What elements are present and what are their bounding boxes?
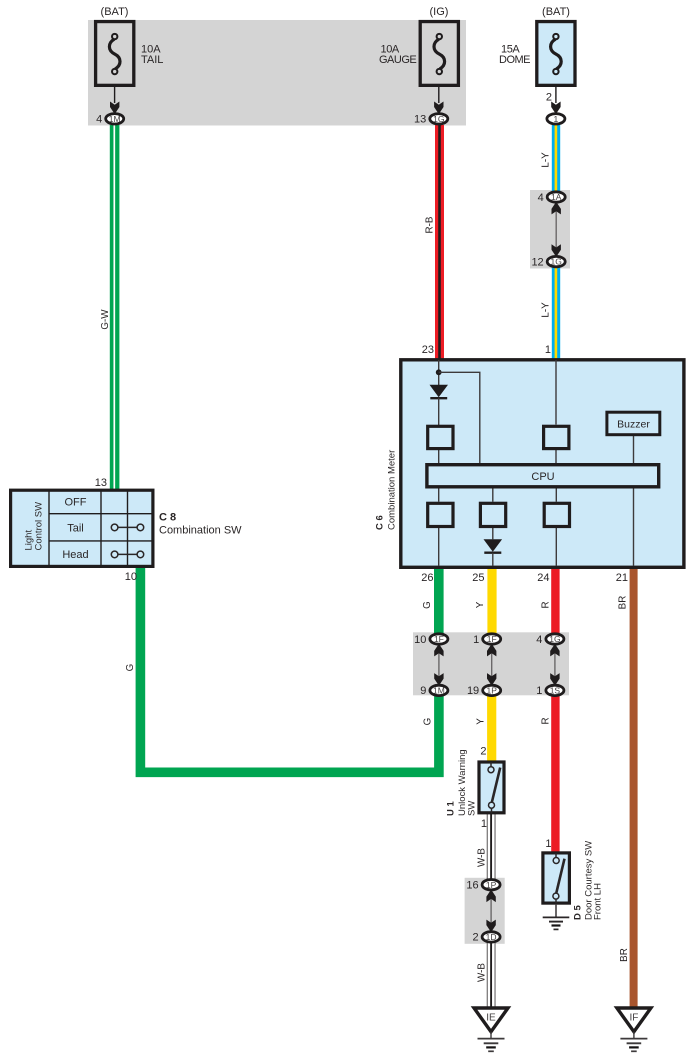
svg-text:24: 24 [537, 572, 549, 584]
svg-text:12: 12 [531, 256, 543, 268]
svg-text:W-B: W-B [477, 963, 488, 982]
wire G (meter pin 26 to connector 1F pin 10) [434, 564, 444, 634]
svg-text:D 5: D 5 [573, 905, 584, 921]
svg-text:Front LH: Front LH [593, 883, 604, 920]
connector band 1F/1G row (middle) [413, 632, 569, 695]
svg-text:G-W: G-W [100, 309, 111, 330]
svg-text:19: 19 [467, 685, 479, 697]
svg-text:25: 25 [472, 572, 484, 584]
meter wire sqB to CPU [555, 450, 557, 463]
arrow into connector 1G [434, 102, 443, 115]
meter wire bsqB to diode D2 [492, 528, 494, 539]
svg-text:1: 1 [554, 114, 559, 124]
wire L-Y lower (connector 1G to combination meter pin 1) [552, 266, 560, 360]
svg-text:R: R [541, 601, 552, 608]
svg-text:1: 1 [545, 838, 551, 850]
link line 1P-1D [490, 892, 492, 929]
meter inner wire node to CPU [439, 372, 480, 463]
relay block gray band (top) [88, 20, 466, 126]
node junction dot [436, 369, 442, 375]
door courtesy SW ground [543, 916, 570, 918]
wire BR (meter pin 21 to ground IF) [630, 564, 638, 1008]
meter block square top B [544, 426, 569, 448]
svg-text:L-Y: L-Y [541, 302, 552, 318]
wire R (meter pin 24 to connector 1G pin 4) [551, 564, 559, 634]
wire fuse DOME lead pin 2 [555, 75, 557, 104]
meter wire sqA to CPU [438, 450, 440, 463]
svg-text:1F: 1F [487, 634, 497, 644]
svg-text:9: 9 [420, 685, 426, 697]
connector 1F (green) [430, 634, 448, 644]
svg-text:13: 13 [414, 114, 426, 126]
svg-text:C 8: C 8 [159, 512, 176, 524]
light control SW Head contact [111, 551, 143, 558]
svg-text:1: 1 [473, 634, 479, 646]
svg-text:2: 2 [480, 746, 486, 758]
wire W-B (connector 1D pin 2 to ground IE) [487, 942, 496, 1008]
svg-text:26: 26 [421, 572, 433, 584]
connector 1 [547, 114, 565, 124]
svg-text:Head: Head [62, 549, 88, 561]
svg-text:1A: 1A [551, 192, 562, 202]
door courtesy SW contact [553, 853, 565, 904]
connector 1P (W-B) [482, 880, 500, 890]
svg-text:TAIL: TAIL [141, 54, 163, 66]
wire L-Y upper (fuse DOME connector 1 to 1A) [552, 125, 560, 192]
svg-text:23: 23 [422, 344, 434, 356]
svg-text:1M: 1M [109, 114, 121, 124]
svg-text:13: 13 [95, 477, 107, 489]
wire fuse GAUGE lead [438, 75, 440, 104]
svg-text:W-B: W-B [477, 848, 488, 867]
ground IE [474, 1008, 508, 1032]
svg-text:16: 16 [466, 880, 478, 892]
meter wire CPU to bsqC [555, 489, 557, 502]
meter wire bsqC to pin24 [555, 528, 557, 566]
light control SW grid [49, 490, 153, 567]
svg-text:10: 10 [125, 571, 137, 583]
svg-text:10: 10 [414, 634, 426, 646]
svg-text:1D: 1D [486, 932, 497, 942]
svg-text:1: 1 [536, 685, 542, 697]
svg-text:1M: 1M [433, 686, 445, 696]
light control SW Tail contact [111, 524, 143, 531]
svg-text:L-Y: L-Y [541, 152, 552, 168]
meter wire CPU to bsqB [492, 489, 494, 502]
svg-text:Buzzer: Buzzer [617, 419, 650, 431]
svg-text:1P: 1P [486, 686, 497, 696]
unlock warning SW contact [488, 762, 500, 813]
svg-text:Combination Meter: Combination Meter [387, 450, 398, 530]
svg-text:Combination SW: Combination SW [159, 525, 242, 537]
arrow down into 1S [550, 673, 559, 686]
meter block square bottom B [480, 503, 505, 526]
connector 1P (yellow) [483, 685, 501, 695]
svg-text:SW: SW [467, 801, 478, 816]
meter block square top A [428, 426, 453, 448]
wire Y (meter pin 25 to connector 1F pin 1) [487, 564, 496, 634]
wire fuse TAIL lead [114, 75, 116, 104]
CPU bar [427, 465, 659, 487]
svg-text:1F: 1F [434, 634, 444, 644]
svg-text:4: 4 [538, 192, 544, 204]
arrow down into 1G [552, 244, 561, 257]
wire G-W (fuse TAIL to light control SW) [110, 125, 120, 490]
svg-text:4: 4 [96, 114, 102, 126]
light control SW box C8 [11, 490, 153, 566]
svg-text:2: 2 [546, 92, 552, 104]
fuse 10A TAIL [96, 22, 134, 86]
svg-text:R-B: R-B [425, 216, 436, 233]
meter wire buzzer to CPU [633, 436, 635, 463]
svg-text:(IG): (IG) [430, 6, 449, 18]
link line 1F-1P [491, 647, 493, 683]
svg-text:G: G [422, 601, 433, 609]
wire R (connector 1S pin 1 to door courtesy SW pin 1) [551, 695, 559, 853]
arrow up into 1A [552, 202, 561, 215]
ground IF [617, 1008, 651, 1032]
diode D1 (meter input) [430, 385, 449, 397]
door courtesy SW box D5 [543, 853, 570, 903]
svg-text:GAUGE: GAUGE [379, 54, 416, 66]
svg-text:1G: 1G [549, 634, 560, 644]
connector 1M (green) [430, 685, 448, 695]
meter wire pin1 to sqB [555, 360, 557, 425]
connector 1G (dome column) [547, 256, 565, 266]
svg-text:BR: BR [618, 596, 629, 610]
arrow up into 1F yellow [487, 644, 496, 657]
meter block square bottom A [428, 503, 453, 526]
arrow up into 1P [486, 890, 495, 903]
svg-text:1: 1 [545, 344, 551, 356]
connector 1G [430, 114, 448, 124]
meter wire CPU to pin21 [633, 489, 635, 567]
svg-text:(BAT): (BAT) [542, 6, 570, 18]
svg-text:1G: 1G [551, 257, 562, 267]
svg-text:21: 21 [616, 572, 628, 584]
svg-text:BR: BR [619, 948, 630, 962]
svg-text:Y: Y [475, 601, 486, 608]
door courtesy SW ground lead [555, 905, 557, 918]
arrow up into 1G red [550, 644, 559, 657]
connector band 1A-1G (dome column) [530, 190, 570, 269]
wire R-B (fuse GAUGE to combination meter pin 23) [435, 125, 444, 360]
wire W-B (unlock warning SW pin 1 to connector 1P pin 16) [487, 814, 496, 879]
link line 1F-1M [438, 647, 440, 683]
svg-text:IE: IE [486, 1013, 496, 1024]
svg-text:G: G [423, 718, 434, 726]
arrow down into 1M [434, 673, 443, 686]
arrow into connector 1 [551, 102, 560, 115]
arrow into connector 1M [110, 102, 119, 115]
svg-text:4: 4 [536, 634, 542, 646]
wire Y (connector 1P pin 19 to unlock warning SW pin 2) [487, 695, 496, 762]
svg-text:2: 2 [472, 932, 478, 944]
svg-text:IF: IF [629, 1013, 638, 1024]
connector 1G (red) [546, 634, 564, 644]
combination meter box C6 [401, 360, 684, 568]
fuse 15A DOME [537, 22, 575, 86]
meter wire CPU to bsqA [438, 489, 440, 502]
svg-text:R: R [541, 717, 552, 724]
svg-text:Y: Y [476, 718, 487, 725]
connector 1A [547, 192, 565, 202]
connector 1F (yellow) [483, 634, 501, 644]
svg-text:(BAT): (BAT) [101, 6, 129, 18]
svg-text:CPU: CPU [531, 471, 554, 483]
svg-text:1G: 1G [433, 114, 444, 124]
diode D2 (meter output) [484, 539, 503, 551]
svg-text:1P: 1P [486, 880, 497, 890]
wire G (light control SW pin 10 to connector 1M pin 9) [140, 566, 439, 772]
svg-text:U 1: U 1 [446, 801, 457, 817]
svg-text:Tail: Tail [67, 522, 84, 534]
svg-text:1: 1 [481, 818, 487, 830]
svg-text:G: G [125, 664, 136, 672]
connector 1S (red) [546, 685, 564, 695]
arrow down into 1P [487, 673, 496, 686]
meter block square bottom C [544, 503, 569, 526]
connector 1D [482, 932, 500, 942]
connector 1M [106, 114, 124, 124]
link line 1G-1S [554, 647, 556, 683]
svg-text:Control SW: Control SW [34, 502, 45, 551]
buzzer box [607, 412, 660, 435]
fuse 10A GAUGE [420, 22, 458, 86]
arrow down into 1D [486, 920, 495, 933]
svg-text:DOME: DOME [499, 54, 530, 66]
connector band 1P-1D (lower) [465, 878, 505, 944]
meter inner wire pin23 node [438, 360, 440, 385]
meter wire bsqA to pin26 [438, 528, 440, 566]
unlock warning SW box U1 [479, 762, 504, 813]
arrow up into 1F [434, 644, 443, 657]
link line 1A-1G [555, 205, 557, 254]
svg-text:1S: 1S [550, 686, 561, 696]
svg-text:OFF: OFF [65, 496, 87, 508]
svg-text:C 6: C 6 [375, 515, 386, 530]
